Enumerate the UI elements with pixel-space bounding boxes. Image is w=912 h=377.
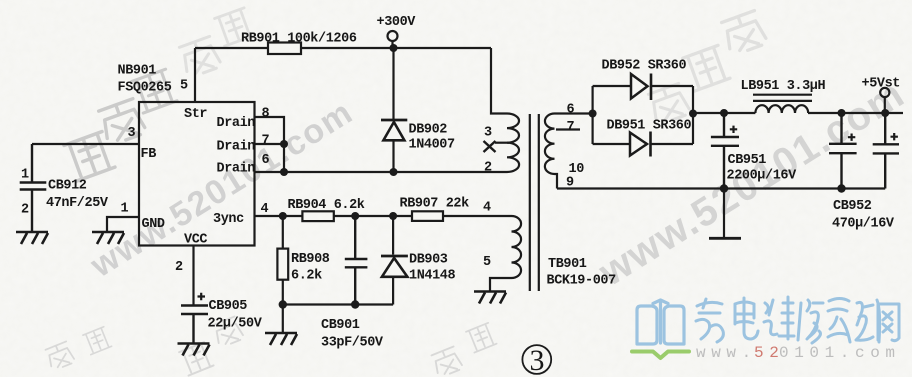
- svg-text:5: 5: [483, 255, 491, 270]
- wire DB902 branch lower: [392, 140, 394, 172]
- ground T CB951: [709, 237, 741, 240]
- svg-text:CB952: CB952: [833, 199, 872, 214]
- wire DB902 branch upper: [392, 48, 394, 119]
- svg-text:2: 2: [175, 260, 183, 275]
- svg-text:8: 8: [262, 107, 270, 122]
- capacitor output plus: [891, 133, 898, 140]
- wire bottom bus: [283, 303, 393, 305]
- svg-text:7: 7: [262, 134, 270, 149]
- svg-text:BCK19-007: BCK19-007: [547, 274, 617, 289]
- svg-text:9: 9: [566, 176, 574, 191]
- svg-text:CB912: CB912: [48, 179, 87, 194]
- node sync DB903 junction: [389, 212, 397, 220]
- svg-text:+300V: +300V: [377, 15, 417, 30]
- node DB902 anode junction: [390, 168, 398, 176]
- svg-text:33pF/50V: 33pF/50V: [321, 336, 384, 351]
- svg-text:3ync: 3ync: [213, 212, 244, 227]
- transformer TB901 secondary winding: [545, 114, 593, 175]
- svg-text:FB: FB: [141, 147, 157, 162]
- svg-text:TB901: TB901: [548, 257, 587, 272]
- ground bottom bus: [265, 333, 297, 345]
- svg-text:Drain: Drain: [217, 140, 256, 155]
- wire sync pin4: [255, 215, 512, 217]
- node sync RB908 junction: [279, 212, 287, 220]
- svg-text:1: 1: [121, 202, 129, 217]
- capacitor CB905 plus: [198, 293, 206, 300]
- capacitor CB905: [181, 306, 208, 344]
- wire pin5 winding to ground: [490, 278, 512, 291]
- svg-text:2200µ/16V: 2200µ/16V: [727, 169, 798, 184]
- wire FB pin3: [32, 143, 139, 145]
- svg-text:DB902: DB902: [409, 123, 448, 138]
- svg-text:+5Vst: +5Vst: [862, 77, 901, 92]
- wire +5V rail: [693, 112, 903, 114]
- node CB952 top junction: [838, 109, 846, 117]
- svg-text:RB901 100k/1206: RB901 100k/1206: [241, 32, 357, 47]
- node +5V output junction: [881, 109, 889, 117]
- node CB951 bottom junction: [720, 184, 728, 192]
- svg-text:Drain: Drain: [217, 162, 256, 177]
- transformer core: [530, 114, 539, 291]
- wire pin9 lead: [555, 174, 558, 189]
- wire X tap pin3: [495, 142, 509, 144]
- inductor LB951: [755, 105, 808, 113]
- ground CB905: [178, 344, 210, 356]
- IC NB901 FSQ0265: [139, 102, 255, 246]
- svg-text:1: 1: [21, 168, 29, 183]
- capacitor output: [873, 113, 899, 189]
- wire pin5: [194, 48, 196, 102]
- capacitor CB951: [711, 113, 739, 189]
- node secondary pin6 junction: [589, 110, 597, 118]
- wire pin7: [255, 143, 285, 145]
- svg-text:Str: Str: [184, 107, 207, 122]
- ground CB912: [16, 232, 48, 244]
- svg-text:www.: www.: [696, 344, 757, 362]
- resistor RB907: [412, 211, 443, 221]
- capacitor CB952: [829, 113, 857, 189]
- node CB952 bottom junction: [837, 184, 845, 192]
- svg-text:CB951: CB951: [728, 153, 767, 168]
- ground transformer pin5: [474, 292, 506, 304]
- svg-text:RB904 6.2k: RB904 6.2k: [288, 198, 365, 213]
- node drain pin6 junction: [280, 168, 288, 176]
- resistor RB904: [302, 211, 333, 221]
- svg-text:1N4007: 1N4007: [409, 138, 456, 153]
- diode DB951: [593, 143, 630, 145]
- node rectifier output junction: [689, 110, 697, 118]
- wire diode pair left vertical: [591, 86, 593, 144]
- svg-text:GND: GND: [142, 217, 165, 232]
- diode DB902: [381, 119, 407, 122]
- terminal +5Vst: [880, 88, 889, 97]
- svg-text:47nF/25V: 47nF/25V: [46, 196, 109, 211]
- svg-text:DB951 SR360: DB951 SR360: [607, 119, 692, 134]
- node CB951 top junction: [720, 109, 728, 117]
- svg-text:CB905: CB905: [209, 299, 248, 314]
- svg-text:3: 3: [128, 126, 136, 141]
- svg-text:RB908: RB908: [291, 252, 330, 267]
- svg-text:4: 4: [483, 201, 491, 216]
- node X no-connect: [484, 141, 496, 152]
- node sync CB901 junction: [351, 212, 359, 220]
- transformer TB901 primary upper winding: [507, 114, 519, 173]
- node bottom CB901 junction: [351, 300, 359, 308]
- svg-text:4: 4: [261, 202, 269, 217]
- capacitor CB951 plus: [730, 126, 737, 133]
- svg-text:1N4148: 1N4148: [409, 269, 456, 284]
- svg-text:VCC: VCC: [184, 233, 207, 248]
- svg-text:CB901: CB901: [321, 318, 360, 333]
- wire ground stub RB908: [282, 305, 284, 333]
- wire VCC pin2: [192, 246, 194, 306]
- page number 3: [522, 345, 551, 374]
- wire secondary return rail: [557, 187, 885, 189]
- resistor RB901: [268, 43, 301, 55]
- wire pin7 stub: [556, 128, 580, 130]
- wire GND pin1: [107, 217, 139, 232]
- wire diode pair right vertical: [692, 86, 694, 144]
- svg-text:RB907 22k: RB907 22k: [400, 197, 470, 212]
- svg-text:6: 6: [567, 103, 575, 118]
- svg-text:NB901: NB901: [118, 64, 157, 79]
- svg-text:2: 2: [484, 161, 492, 176]
- node +300V junction: [390, 44, 398, 52]
- capacitor CB901: [345, 216, 368, 305]
- svg-text:3: 3: [530, 344, 545, 377]
- svg-text:3: 3: [484, 126, 492, 141]
- svg-text:FSQ0265: FSQ0265: [118, 81, 172, 96]
- svg-text:7: 7: [567, 120, 575, 135]
- wire drain bus: [255, 171, 508, 173]
- terminal +300V: [388, 31, 398, 41]
- svg-text:DB903: DB903: [409, 253, 448, 268]
- resistor RB908: [282, 216, 284, 305]
- svg-text:DB952 SR360: DB952 SR360: [602, 59, 687, 74]
- diode DB903: [392, 216, 394, 255]
- capacitor CB952 plus: [848, 134, 855, 141]
- svg-text:5: 5: [180, 79, 188, 94]
- wire +300V drop: [391, 41, 393, 48]
- wire CB951 ground: [723, 189, 725, 238]
- wire top rail from pin5 to transformer: [195, 48, 507, 114]
- transformer TB901 primary lower winding: [512, 216, 522, 278]
- capacitor CB912: [20, 144, 47, 232]
- svg-text:2: 2: [21, 203, 29, 218]
- svg-text:22µ/50V: 22µ/50V: [208, 317, 263, 332]
- node bottom RB908 junction: [279, 300, 287, 308]
- ground GND pin1: [92, 232, 124, 244]
- svg-text:LB951 3.3µH: LB951 3.3µH: [741, 79, 826, 94]
- svg-text:0101.com: 0101.com: [779, 344, 901, 362]
- svg-text:Drain: Drain: [217, 116, 256, 131]
- svg-text:6.2k: 6.2k: [291, 269, 322, 284]
- wire pin8: [255, 117, 285, 172]
- svg-text:470µ/16V: 470µ/16V: [832, 217, 895, 232]
- svg-text:6: 6: [262, 153, 270, 168]
- node drain pin7 junction: [280, 140, 288, 148]
- diode DB952: [593, 85, 631, 87]
